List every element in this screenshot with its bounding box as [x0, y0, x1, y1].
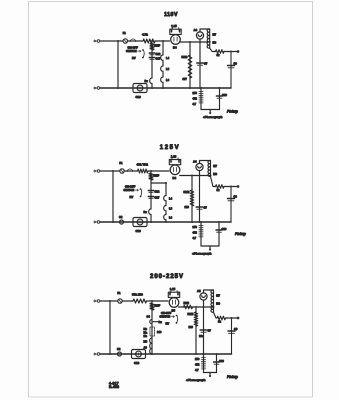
wire top rail (200-225V) [100, 300, 168, 302]
wire bottom rail (125V) [100, 221, 231, 223]
junction plate rail at coil (110V) [209, 41, 211, 43]
svg-text:C10: C10 [219, 359, 224, 363]
junction phono cap (200-225V) [216, 353, 218, 355]
inductor L4 (125V) [164, 196, 166, 201]
junction rail B bottom (125V) [165, 221, 167, 223]
svg-text:B4: B4 [173, 176, 177, 180]
svg-text:1.25: 1.25 [171, 154, 177, 158]
wire vertical rail (200-225V) left [109, 301, 111, 354]
svg-text:220: 220 [185, 205, 190, 209]
svg-text:Bb: Bb [144, 334, 148, 338]
inductor Rx loop on rail A (110V) [150, 78, 152, 84]
svg-text:RV: RV [130, 195, 134, 199]
svg-text:4.7k: 4.7k [142, 33, 148, 37]
capacitor C9 (125V) [228, 198, 235, 200]
capacitor C7 (200-225V) [200, 329, 207, 331]
wire pilot to coil (110V) [200, 29, 210, 32]
svg-text:C19: C19 [136, 95, 142, 99]
resistor R housing divider (200-225V) [203, 357, 205, 371]
svg-text:Pickup: Pickup [235, 232, 246, 236]
output terminal dot (200-225V) [237, 317, 240, 320]
svg-text:472: 472 [193, 97, 198, 101]
junction rail D (110V) [199, 41, 201, 43]
capacitor C2 on bottom rail (125V) [120, 220, 124, 224]
junction rail D (125V) [199, 175, 201, 177]
capacitor C10 (200-225V) [214, 361, 220, 363]
switch S2 (200-225V) [176, 315, 178, 317]
resistor RMB (200-225V) [194, 312, 198, 326]
fuse F (110V) [123, 39, 127, 43]
junction divider (200-225V) [203, 353, 205, 355]
svg-text:A4: A4 [193, 160, 197, 164]
rectifier tube V1 (110V) [170, 29, 181, 34]
input terminal J2 (200-225V) (neutral) [94, 353, 97, 355]
junction rail A bottom (125V) [150, 221, 152, 223]
inductor L6 (125V) [164, 215, 166, 220]
switch S2 (125V) [140, 188, 142, 190]
inductor Rx loop on rail A (125V) [149, 209, 151, 215]
arrow to switch (200-225V) [171, 316, 175, 318]
junction (125V) top-left [112, 170, 114, 172]
wire phono cap branch (200-225V) [216, 354, 218, 373]
rectifier tube V1 (200-225V) [168, 292, 179, 297]
wire divider bottom (200-225V) [203, 370, 205, 373]
wire divider bottom (110V) [200, 104, 202, 110]
svg-text:125V: 125V [160, 145, 180, 151]
junction rail C (110V) [189, 41, 191, 43]
svg-text:M8: M8 [213, 41, 217, 45]
svg-text:Rx: Rx [144, 210, 148, 214]
wire plate rail (200-225V) [179, 306, 214, 308]
wire coil to output resistor (125V) [211, 177, 216, 187]
inductor loop Rx stub (200-225V) [150, 320, 158, 324]
svg-text:A3: A3 [144, 346, 148, 350]
inductor L6 (110V) [161, 77, 163, 82]
junction rail C (200-225V) [195, 306, 197, 308]
arrow to switch (125V) [135, 189, 139, 191]
phono stub terminal (200-225V) [209, 373, 211, 377]
resistor RM2 inline (200-225V) [184, 305, 193, 309]
input terminal J1 (125V) (line) [94, 170, 97, 172]
svg-text:10u: 10u [199, 334, 204, 338]
svg-text:C4: C4 [147, 315, 151, 319]
junction (200-225V) top-left [109, 300, 111, 302]
junction phono cap (110V) [219, 87, 221, 89]
svg-text:ON-OFF: ON-OFF [161, 311, 172, 315]
junction rail D bottom (125V) [199, 221, 201, 223]
resistor RMF on rail A (125V) [149, 173, 153, 180]
wire to output terminal (110V) [224, 51, 237, 53]
junction rail A bottom (200-225V) [151, 353, 153, 355]
inductor L4 (110V) [161, 55, 163, 60]
ballast coil L7 (110V) [207, 29, 210, 48]
svg-text:Rx: Rx [145, 79, 149, 83]
resistor R3 output (110V) [216, 50, 225, 54]
capacitor C9 (110V) [228, 65, 235, 67]
wire rail C (125V) [191, 176, 193, 223]
wire divider bottom (125V) [200, 238, 202, 246]
wire rail D (200-225V) [203, 300, 205, 354]
wire coil to output resistor (200-225V) [214, 312, 218, 318]
svg-text:C17: C17 [156, 57, 161, 61]
svg-text:C12: C12 [155, 190, 160, 194]
wire link railA-railB (125V) [151, 182, 166, 184]
svg-text:C17: C17 [155, 196, 160, 200]
wire top rail (125V) [100, 170, 169, 172]
svg-text:RMF: RMF [155, 44, 161, 48]
svg-text:4.7: 4.7 [193, 102, 197, 106]
svg-text:ON-OFF: ON-OFF [128, 46, 139, 50]
svg-text:M8: M8 [213, 172, 217, 176]
wire pilot to coil (200-225V) [204, 290, 214, 293]
resistor RMB (110V) [188, 55, 192, 78]
wire divider top (110V) [200, 88, 202, 91]
svg-text:47k TH1: 47k TH1 [137, 163, 149, 167]
wire plate rail (125V) [180, 175, 211, 177]
svg-text:C12: C12 [156, 52, 161, 56]
wire rail D (110V) [199, 39, 201, 88]
wire rail C (110V) [189, 42, 191, 88]
pilot lamp P1 (125V) [196, 163, 203, 170]
ballast coil L7 (125V) [208, 161, 211, 177]
input terminal J2 (110V) (neutral) [94, 87, 97, 89]
junction rail D (200-225V) [203, 306, 205, 308]
wire vertical rail (110V) left [117, 41, 119, 88]
svg-text:C19: C19 [136, 229, 142, 233]
junction rail D bottom (110V) [199, 87, 201, 89]
svg-text:377: 377 [183, 77, 188, 81]
capacitor C9 (200-225V) [228, 330, 235, 332]
output terminal dot (110V) [237, 50, 240, 53]
svg-text:4.7: 4.7 [195, 368, 199, 372]
resistor R1 line dropper (200-225V) [133, 299, 147, 303]
junction rail C bottom (110V) [189, 87, 191, 89]
svg-text:RM2: RM2 [184, 301, 190, 305]
junction rail A bottom (110V) [151, 87, 153, 89]
svg-text:C10: C10 [222, 227, 227, 231]
input terminal J1 (200-225V) (line) [94, 300, 97, 302]
wire rail B (110V) [162, 41, 164, 88]
svg-text:270: 270 [193, 91, 198, 95]
junction phono cap (125V) [218, 221, 220, 223]
electrolytic C19 (110V) [133, 84, 147, 93]
wire top rail (110V) [100, 40, 170, 42]
resistor RMB (125V) [190, 190, 194, 206]
wire phono cap branch (125V) [218, 222, 220, 246]
resistor R3 output (200-225V) [217, 316, 226, 320]
capacitor C10 (110V) [217, 95, 223, 97]
svg-text:M7: M7 [213, 164, 217, 168]
junction rail A top (125V) [150, 170, 152, 172]
wire rail C (200-225V) [195, 307, 197, 354]
wire divider top (200-225V) [203, 354, 205, 357]
svg-text:B5: B5 [172, 309, 176, 313]
junction rail C bottom (125V) [191, 221, 193, 223]
input terminal J2 (125V) (neutral) [94, 221, 97, 223]
capacitor C12 (110V) [149, 52, 154, 54]
wire output vertical (125V) [225, 187, 231, 223]
wire vertical rail (125V) left [112, 171, 114, 222]
resistor RMF on rail A (200-225V) [150, 303, 154, 310]
junction rail B bottom (110V) [162, 87, 164, 89]
capacitor C10 (125V) [216, 229, 222, 231]
svg-text:110V: 110V [164, 12, 178, 18]
svg-text:240: 240 [157, 330, 162, 334]
svg-text:1.25: 1.25 [171, 24, 177, 28]
electrolytic C19 (200-225V) [132, 350, 146, 359]
junction rail B (125V) [165, 182, 167, 184]
svg-text:A5: A5 [197, 289, 201, 293]
capacitor C17 (110V) [149, 57, 154, 59]
resistor R3 output (125V) [216, 185, 225, 189]
svg-text:1.25: 1.25 [170, 287, 176, 291]
svg-text:472: 472 [195, 363, 200, 367]
wire coil to output resistor (110V) [210, 48, 216, 51]
resistor R1 line dropper (110V) [143, 39, 155, 43]
wire phono link (125V) [201, 245, 219, 247]
input terminal J1 (110V) (line) [94, 40, 97, 42]
wire output vertical (200-225V) [226, 318, 232, 354]
svg-text:C9: C9 [234, 62, 238, 66]
wire bottom rail (110V) [100, 87, 231, 89]
capacitor C12 (125V) [148, 190, 153, 192]
arrow to switch (110V) [138, 50, 142, 52]
junction plate rail at coil (200-225V) [213, 306, 215, 308]
svg-text:ON-OFF: ON-OFF [125, 185, 136, 189]
junction rail B (110V) [162, 40, 164, 42]
svg-text:R.453: R.453 [109, 385, 119, 389]
wire to output terminal (125V) [224, 186, 237, 188]
wire pilot to coil (125V) [200, 161, 211, 164]
wire phono cap branch (110V) [219, 88, 221, 110]
svg-text:Ma: Ma [144, 331, 148, 335]
svg-text:50k 150: 50k 150 [132, 293, 143, 297]
wire rail A (200-225V) [151, 301, 153, 354]
line switch S1 contacts (125V) [127, 170, 129, 172]
svg-text:M7: M7 [216, 294, 220, 298]
phono stub terminal (110V) [209, 110, 211, 114]
wire rail A (125V) [150, 171, 152, 222]
svg-text:C2: C2 [117, 347, 121, 351]
svg-text:Rb: Rb [144, 327, 148, 331]
svg-text:C19: C19 [134, 361, 140, 365]
svg-text:Pickup: Pickup [227, 110, 238, 114]
inductor L5 (125V) [164, 206, 166, 211]
svg-text:472: 472 [193, 231, 198, 235]
svg-text:SWITCH: SWITCH [124, 188, 135, 192]
svg-text:C7: C7 [204, 206, 208, 210]
svg-text:270: 270 [195, 357, 200, 361]
resistor R housing divider (110V) [200, 91, 202, 105]
svg-text:4.7: 4.7 [193, 236, 197, 240]
svg-text:RMF: RMF [154, 174, 160, 178]
junction (125V) bottom-left [112, 221, 114, 223]
output terminal dot (125V) [237, 185, 240, 188]
svg-text:RMB: RMB [184, 190, 190, 194]
junction rail D bottom (200-225V) [203, 353, 205, 355]
junction rail C (125V) [191, 175, 193, 177]
resistor 240 dotted (200-225V) [150, 327, 154, 336]
junction divider (125V) [200, 221, 202, 223]
svg-text:+Phonograph: +Phonograph [192, 252, 212, 256]
wire plate rail (110V) [180, 41, 210, 43]
svg-text:270: 270 [193, 225, 198, 229]
svg-text:M8: M8 [144, 340, 148, 344]
svg-text:RV: RV [132, 56, 136, 60]
switch S2 (110V) [142, 49, 144, 51]
phono stub terminal (125V) [209, 246, 211, 250]
svg-text:Rx: Rx [159, 320, 163, 324]
pilot lamp P1 (110V) [196, 32, 203, 39]
rectifier tube V1 (125V) [169, 160, 180, 165]
svg-text:M8: M8 [216, 302, 220, 306]
svg-text:RV: RV [166, 322, 170, 326]
svg-text:C10: C10 [222, 93, 227, 97]
wire rail D (125V) [199, 170, 201, 222]
wire rail B (125V) [165, 183, 167, 222]
svg-text:220: 220 [189, 325, 194, 329]
wire to output terminal (200-225V) [226, 317, 237, 319]
junction plate rail at coil (125V) [210, 175, 212, 177]
svg-text:C9: C9 [234, 195, 238, 199]
svg-text:RMF: RMF [155, 304, 161, 308]
wire phono link (200-225V) [204, 372, 217, 374]
capacitor C7 (110V) [197, 62, 204, 64]
svg-text:SWITCH: SWITCH [160, 315, 171, 319]
resistor R housing divider (125V) [200, 225, 202, 239]
junction rail A top (200-225V) [151, 300, 153, 302]
fuse F (125V) [120, 169, 124, 173]
resistor R1 line dropper (125V) [138, 169, 148, 173]
junction (200-225V) bottom-left [109, 353, 111, 355]
svg-text:200-225V: 200-225V [150, 274, 184, 280]
junction rail C bottom (200-225V) [195, 353, 197, 355]
resistor RMF on rail A (110V) [150, 43, 154, 50]
svg-text:C7: C7 [208, 329, 212, 333]
inductor L5 (110V) [161, 66, 163, 71]
svg-text:C7: C7 [204, 62, 208, 66]
inductor L9 winding (200-225V) [150, 338, 152, 354]
wire bottom rail (200-225V) [100, 353, 232, 355]
svg-text:C9: C9 [234, 327, 238, 331]
electrolytic C19 (125V) [133, 218, 147, 227]
capacitor C2 on bottom rail (200-225V) [118, 352, 122, 356]
junction rail A top (110V) [151, 40, 153, 42]
pilot lamp P1 (200-225V) [200, 293, 207, 300]
svg-text:SWITCH: SWITCH [126, 49, 137, 53]
line switch S1 contacts (110V) [130, 40, 132, 42]
svg-text:+Phonograph: +Phonograph [186, 378, 206, 382]
wire rail A (110V) [151, 41, 153, 88]
svg-text:A4: A4 [194, 28, 198, 32]
svg-text:+Phonograph: +Phonograph [203, 115, 223, 119]
fuse F (200-225V) [118, 299, 122, 303]
svg-text:RMB: RMB [182, 55, 188, 59]
svg-text:Pickup: Pickup [227, 375, 238, 379]
wire phono link (110V) [201, 109, 220, 111]
junction output (110V) [230, 51, 232, 53]
junction divider (110V) [200, 87, 202, 89]
junction output (125V) [230, 186, 232, 188]
ballast coil L7 (200-225V) [211, 290, 214, 312]
junction output (200-225V) [231, 317, 233, 319]
svg-text:C2: C2 [119, 215, 123, 219]
junction (110V) top-left [117, 40, 119, 42]
capacitor C17 (125V) [148, 196, 153, 198]
svg-text:M7: M7 [213, 33, 217, 37]
wire divider top (125V) [200, 222, 202, 225]
svg-text:B4: B4 [173, 46, 177, 50]
wire output vertical (110V) [225, 52, 231, 89]
junction (110V) bottom-left [117, 87, 119, 89]
capacitor C7 (125V) [196, 206, 203, 208]
svg-text:RMB: RMB [188, 312, 194, 316]
